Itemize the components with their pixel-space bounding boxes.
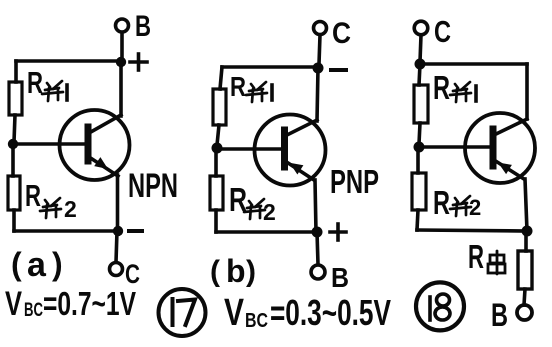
- svg-text:R: R: [433, 184, 450, 221]
- svg-text:R: R: [468, 238, 484, 275]
- svg-text:C: C: [434, 14, 451, 49]
- wire left drop to R1: [14, 61, 18, 82]
- resistor R串 body: [518, 251, 532, 289]
- svg-text:): ): [246, 255, 256, 288]
- svg-text:R: R: [27, 65, 43, 100]
- wire R2 to bottom rail: [12, 210, 16, 231]
- svg-text:(: (: [11, 246, 22, 282]
- svg-text:C: C: [332, 17, 351, 50]
- wire R2 to bottom rail (right): [417, 210, 418, 230]
- wire top rail (right circuit): [420, 62, 527, 66]
- glyph 并 of R#1 (middle): [246, 82, 267, 102]
- wire base lead: [13, 142, 85, 146]
- wire right drop to collector: [525, 64, 529, 119]
- transistor Q1 base bar: [85, 127, 92, 161]
- label 1 of R#1 (right): [474, 86, 478, 101]
- node base junction dot (right circuit): [414, 142, 425, 153]
- transistor Q1 NPN circle: [60, 110, 130, 180]
- transistor Q2 PNP circle: [255, 115, 326, 186]
- svg-text:BC: BC: [245, 310, 268, 332]
- wire base lead (middle): [217, 147, 281, 151]
- glyph 并 of R#1 (right): [450, 82, 471, 102]
- svg-text:R: R: [433, 69, 450, 106]
- resistor R#2 (right circuit) body: [412, 173, 426, 210]
- transistor Q2 emitter lead with arrow (pointing in, PNP): [285, 161, 314, 180]
- figure number 18 circled: [416, 282, 464, 330]
- svg-text:2: 2: [64, 196, 77, 222]
- minus sign (bottom, left circuit): [129, 229, 142, 233]
- wire emitter down to - node: [116, 175, 120, 231]
- wire collector up to - node (middle): [317, 68, 318, 121]
- label (a): [11, 246, 63, 284]
- svg-text:B: B: [331, 262, 349, 293]
- wire junction to C terminal: [116, 231, 117, 262]
- svg-text:PNP: PNP: [330, 163, 379, 200]
- resistor R#1 (middle circuit) body: [213, 89, 226, 125]
- svg-text:R: R: [25, 178, 41, 213]
- glyph 并 of R#2 (right): [450, 196, 471, 216]
- svg-text:2: 2: [263, 199, 276, 225]
- transistor Q3 emitter lead with arrow (pointing in): [494, 160, 524, 179]
- wire R1 to base node: [14, 115, 15, 142]
- wire junction down to R1 (right): [419, 64, 420, 85]
- transistor Q3 base bar: [490, 129, 497, 166]
- node bottom junction dot (right circuit): [522, 226, 533, 237]
- node - junction dot (top, middle circuit): [313, 63, 324, 74]
- wire bottom rail (middle circuit): [216, 230, 317, 234]
- svg-text:b: b: [226, 253, 246, 289]
- transistor Q3 circle: [465, 113, 535, 183]
- terminal C (bottom, open circle, left circuit): [110, 263, 123, 276]
- terminal B (bottom, middle circuit): [311, 265, 325, 279]
- plus sign (top, left circuit): [130, 54, 147, 70]
- node + junction dot (bottom, middle circuit): [312, 227, 323, 238]
- wire R串 to B terminal: [524, 289, 525, 305]
- wire R1 to base node (middle): [217, 125, 219, 145]
- wire junction to B terminal (middle): [317, 232, 318, 264]
- wire base node down to R2 (right): [416, 147, 420, 173]
- terminal B (top, open circle): [116, 19, 129, 32]
- wire emitter down to + node (middle): [315, 180, 316, 232]
- svg-text:V: V: [5, 285, 22, 323]
- label VBC=0.3~0.5V: [224, 292, 391, 334]
- resistor R#1 (right circuit) body: [414, 85, 428, 123]
- terminal B (bottom, right circuit): [517, 305, 532, 320]
- transistor Q2 base bar: [281, 130, 288, 167]
- transistor Q2 collector lead: [285, 120, 317, 136]
- wire top rail (middle circuit): [222, 65, 318, 69]
- svg-text:V: V: [224, 292, 245, 334]
- wire base node down to R2 (middle): [214, 148, 218, 176]
- figure number 17 circled: [159, 289, 206, 336]
- svg-text:BC: BC: [24, 300, 43, 321]
- svg-text:B: B: [135, 10, 151, 43]
- svg-text:): ): [52, 246, 63, 282]
- wire base lead (right): [419, 145, 490, 149]
- glyph 并 of R#1 (left): [42, 81, 63, 101]
- svg-text:2: 2: [469, 195, 481, 220]
- wire top rail (left circuit): [16, 59, 121, 63]
- wire C terminal down: [420, 35, 421, 62]
- resistor R#2 (middle circuit) body: [210, 176, 223, 210]
- transistor Q1 emitter lead with arrow (NPN, pointing out): [89, 157, 118, 176]
- label VBC=0.7~1V: [5, 285, 136, 323]
- wire base node down to R2: [11, 144, 15, 176]
- wire C terminal down to - node: [319, 35, 320, 64]
- wire collector up to + node: [119, 62, 123, 116]
- svg-text:B: B: [491, 297, 508, 333]
- svg-text:R: R: [230, 71, 246, 102]
- plus sign (bottom, middle circuit): [330, 224, 346, 240]
- node top junction dot (right circuit): [415, 59, 426, 70]
- terminal C (top, middle circuit): [314, 22, 327, 35]
- node base junction dot (middle circuit): [212, 143, 223, 154]
- label 1 of R#1 (middle): [270, 85, 274, 100]
- node + junction dot (top rail, left circuit): [116, 57, 126, 67]
- svg-text:(: (: [210, 255, 220, 288]
- wire bottom rail (left circuit): [14, 229, 118, 233]
- wire left drop to R1 (middle): [220, 67, 222, 89]
- wire B terminal to + junction: [120, 33, 124, 60]
- transistor Q3 collector lead: [494, 119, 527, 135]
- glyph 并 of R#2 (middle): [244, 199, 265, 219]
- minus sign (top, middle circuit): [331, 68, 346, 72]
- wire bottom node to R series: [524, 231, 528, 251]
- wire R2 to bottom rail (middle): [214, 210, 218, 232]
- wire emitter down to bottom node (right): [525, 179, 527, 231]
- transistor Q1 collector lead: [89, 115, 121, 133]
- resistor R#1 (left circuit) body: [9, 82, 22, 115]
- svg-text:NPN: NPN: [128, 167, 178, 205]
- label (b): [210, 253, 256, 289]
- resistor R#2 (left circuit) body: [8, 176, 20, 210]
- terminal C (top, right circuit): [414, 21, 428, 35]
- svg-text:=0.3~0.5V: =0.3~0.5V: [270, 292, 391, 333]
- label 1 of R#1 (left): [65, 85, 69, 100]
- svg-text:a: a: [27, 246, 47, 284]
- wire bottom rail (right circuit): [417, 230, 527, 231]
- node - junction dot (bottom, left circuit): [113, 226, 123, 236]
- wire R1 to base node (right): [419, 123, 420, 144]
- svg-text:=0.7~1V: =0.7~1V: [43, 285, 136, 322]
- node base junction dot (left circuit): [8, 139, 18, 149]
- glyph 串 of R串: [488, 251, 505, 274]
- glyph 并 of R#2 (left): [40, 198, 61, 218]
